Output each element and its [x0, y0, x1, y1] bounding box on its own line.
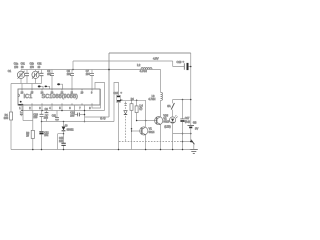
- label R1: [4, 113, 9, 120]
- label R2: [26, 132, 30, 138]
- capacitor C02 trimmer beside C1b: [40, 70, 44, 84]
- wire right leg of H2 down to y=66.5: [172, 61, 174, 67]
- svg-text:4.7uH: 4.7uH: [140, 69, 147, 73]
- capacitor C10 below pin3: [40, 111, 44, 122]
- svg-text:331: 331: [47, 73, 52, 76]
- wire bus y=110.5: [22, 110, 105, 112]
- capacitor C7 above pin9: [90, 70, 94, 90]
- svg-text:+: +: [120, 91, 122, 95]
- capacitor C19 series in antenna line: [184, 63, 187, 70]
- capacitor C4 jumper near pin 13: [45, 86, 50, 90]
- label node voltage (1.1): [100, 116, 105, 120]
- svg-text:30: 30: [38, 67, 41, 69]
- wire V1 collector column: [145, 100, 147, 127]
- switch SA: [171, 100, 174, 117]
- pin numbers top row: [21, 92, 93, 95]
- variable capacitor C1b: [32, 71, 39, 79]
- svg-text:103: 103: [70, 114, 75, 117]
- wire R1 to rail: [10, 120, 12, 150]
- pin ticks top edge: [22, 89, 92, 91]
- svg-text:9014: 9014: [149, 130, 155, 134]
- label C15: [59, 137, 64, 143]
- svg-text:102: 102: [59, 140, 64, 143]
- svg-text:L2: L2: [137, 63, 141, 67]
- wire y=117 to x=109: [85, 116, 110, 118]
- svg-text:SC1088(9088): SC1088(9088): [42, 94, 79, 100]
- wire staple to C16: [114, 83, 119, 122]
- wire pin1 column x=23: [22, 105, 24, 121]
- wire C1b bottom lead: [35, 78, 37, 83]
- capacitor C15: [61, 134, 65, 150]
- svg-text:9013: 9013: [163, 120, 169, 124]
- dashed mechanical link vertical: [125, 102, 127, 142]
- svg-text:3V: 3V: [195, 127, 198, 131]
- wire column x=32.8: [32, 111, 34, 131]
- wire branch y=133.7: [58, 134, 64, 150]
- node junction x=109 on rail: [72, 69, 110, 71]
- label L3: [148, 94, 155, 101]
- wire R4 down to V1 base: [131, 110, 133, 149]
- wire y=121.5 long: [42, 121, 115, 123]
- svg-text:30: 30: [21, 67, 24, 69]
- svg-text:104: 104: [86, 73, 91, 76]
- capacitor ticks on dashed link top: [124, 104, 126, 106]
- svg-text:(7): (7): [139, 108, 142, 111]
- ground symbol: [190, 149, 198, 153]
- earphone jack XS: [191, 140, 195, 150]
- capacitor C6 jumper over pin 12: [57, 83, 62, 89]
- svg-text:1: 1: [19, 107, 21, 110]
- wire V1 emitter to rail: [145, 135, 147, 150]
- label VD2: [65, 125, 74, 132]
- svg-text:C19: C19: [177, 60, 182, 64]
- wire H1 y=53: [109, 52, 191, 54]
- svg-text:270: 270: [30, 67, 35, 69]
- label R4: [131, 98, 135, 101]
- node dots pin7 column: [84, 114, 86, 123]
- svg-text:223: 223: [33, 116, 38, 119]
- svg-text:C1a: C1a: [14, 64, 19, 66]
- capacitor C5 above pin11: [70, 70, 74, 90]
- wire V2 emitter to rail: [160, 125, 162, 150]
- label SA: [167, 104, 171, 108]
- svg-text:8: 8: [89, 107, 91, 110]
- svg-text:4.5V: 4.5V: [153, 56, 159, 60]
- inductor L3 vertical: [161, 92, 163, 100]
- svg-text:7: 7: [79, 107, 81, 110]
- LED VD5: [170, 115, 178, 123]
- svg-text:VD5: VD5: [163, 115, 168, 118]
- electrolytic capacitor C16: [117, 95, 123, 149]
- pin ticks bottom edge: [22, 103, 92, 105]
- node dots right column: [182, 66, 192, 143]
- label C10: [33, 113, 38, 119]
- svg-text:(+): (+): [65, 125, 68, 127]
- node dot V1 base: [131, 128, 133, 132]
- electrolytic capacitor C12: [39, 122, 43, 150]
- node dots on bus: [21, 110, 85, 112]
- wire bus y=100.3 to V1 collector column: [121, 99, 146, 101]
- label C17: [185, 117, 190, 123]
- resistor R5 column x=136.6: [136, 100, 138, 106]
- transistor V2 9013: [155, 117, 163, 125]
- resistor R4 column x=131.5: [131, 100, 133, 103]
- node dots base line: [136, 120, 147, 122]
- node dot branch: [63, 133, 65, 135]
- node dot inside pin1 area: [20, 101, 22, 103]
- pin1 corner mark on bottom edge: [18, 104, 23, 106]
- capacitor C2 above pin13: [50, 70, 54, 90]
- wire pin6 lead to C13: [75, 105, 78, 115]
- label C19: [177, 60, 185, 64]
- wire y=141.5 solid right: [183, 141, 191, 143]
- label V1: [149, 127, 155, 134]
- wire H4 y=66.5 to cap C19: [173, 66, 191, 68]
- wire V2 base line y=120.5: [137, 120, 157, 122]
- label VD5: [163, 115, 170, 129]
- pin 1 notch: [18, 94, 19, 97]
- label IC1 SC1088(9088): [24, 94, 79, 100]
- svg-text:(1.1): (1.1): [100, 116, 105, 120]
- label C7: [86, 70, 91, 76]
- label 4.5V on H1: [153, 56, 159, 60]
- svg-text:5: 5: [59, 107, 61, 110]
- node dot: [182, 99, 184, 101]
- wire pin7 column x=84.5: [84, 105, 86, 122]
- label C16: [113, 91, 122, 96]
- wire R5 down to V2 base line: [136, 113, 138, 121]
- label C12: [44, 131, 49, 137]
- IC U1 SC1088 box: [18, 89, 100, 105]
- variable capacitor C1a: [17, 71, 24, 79]
- label R5 voltage: [139, 104, 143, 110]
- wire left leg of H2 down to rail: [72, 61, 74, 70]
- svg-text:GB: GB: [193, 121, 197, 124]
- capacitor C3 jumper over pins 14-13: [38, 85, 43, 89]
- label C2: [47, 70, 52, 76]
- capacitor C11: [55, 111, 59, 122]
- inductor L2 on rail: [141, 68, 152, 70]
- node dots dashed crossings: [190, 141, 192, 143]
- wire H2 y=61: [73, 60, 173, 62]
- wire right top bus y=99.5: [173, 99, 191, 101]
- label L2: [137, 63, 147, 73]
- svg-text:C11: C11: [52, 114, 57, 117]
- wire C1a top lead: [20, 70, 22, 72]
- svg-text:8S012: 8S012: [67, 129, 75, 132]
- svg-text:4: 4: [49, 107, 51, 110]
- wire vertical x=109 from H1 to y=117: [108, 53, 110, 117]
- label GB 3V: [193, 121, 197, 124]
- svg-text:4.7uH: 4.7uH: [148, 97, 155, 101]
- capacitor C17 column: [180, 100, 184, 150]
- svg-text:104: 104: [44, 117, 49, 120]
- wire drop to pin16: [21, 84, 23, 90]
- wire pin8 wrap via y=108: [92, 89, 101, 108]
- wire pins bottom stubs to bus: [22, 105, 62, 111]
- svg-text:C1b: C1b: [30, 64, 35, 66]
- wire y=133.5: [173, 133, 191, 135]
- capacitor C13 horizontal: [78, 113, 85, 117]
- resistor R2: [31, 130, 34, 138]
- svg-text:330: 330: [4, 116, 9, 120]
- label C13: [70, 111, 75, 117]
- svg-text:C02: C02: [37, 64, 42, 66]
- svg-text:SA: SA: [167, 104, 171, 108]
- capacitor C9 below pin4: [45, 111, 49, 122]
- svg-text:20: 20: [26, 135, 29, 138]
- label C9: [44, 108, 49, 120]
- wire LED to rail: [172, 123, 174, 149]
- label C5: [67, 70, 72, 76]
- transistor V1 9014: [140, 127, 148, 135]
- label C11: [52, 114, 57, 117]
- wire drop to pin15: [31, 84, 33, 90]
- wire C1a bottom lead: [20, 78, 22, 83]
- svg-text:2: 2: [29, 107, 31, 110]
- battery GB 3V: [188, 53, 195, 142]
- svg-text:(0.u): (0.u): [185, 120, 190, 123]
- wire L3 to V2 collector: [160, 100, 162, 116]
- wire bottom rail: [11, 149, 191, 151]
- node dot C16 out: [120, 99, 122, 101]
- svg-text:C1: C1: [8, 69, 12, 73]
- svg-text:3: 3: [39, 107, 41, 110]
- wire bus y=83.5 under tuning gang: [11, 83, 42, 85]
- wire staple pin9 wrap: [95, 83, 105, 111]
- svg-text:+: +: [183, 61, 185, 64]
- wire rail corner down to L3: [160, 70, 162, 93]
- resistor R1 far left column: [10, 112, 13, 120]
- wire top rail y=69.5: [21, 69, 161, 71]
- labels above tuning gang: [8, 64, 42, 74]
- svg-text:6: 6: [69, 107, 71, 110]
- svg-text:C16: C16: [113, 91, 118, 95]
- wire V1 base lead: [132, 130, 142, 132]
- wire left column x=11 down from bus: [10, 84, 12, 113]
- node dots on y=100.3: [131, 100, 138, 102]
- node dots y=121.5: [41, 121, 65, 123]
- svg-text:C01: C01: [21, 64, 26, 66]
- svg-text:270: 270: [14, 67, 19, 69]
- wire C1b top lead: [35, 70, 37, 72]
- svg-text:IC1: IC1: [24, 94, 33, 100]
- dashed link horizontal: [119, 141, 183, 143]
- wire R2 to rail: [32, 138, 34, 149]
- label V2: [163, 116, 169, 123]
- capacitor C14 beside pin1 column: [20, 111, 23, 116]
- node dots bottom rail: [32, 149, 183, 151]
- wire loop y=120.5: [23, 120, 33, 122]
- pin numbers bottom row: [19, 107, 91, 110]
- capacitor C01 trimmer beside C1a: [25, 70, 29, 84]
- svg-text:103: 103: [67, 73, 72, 76]
- svg-text:10u: 10u: [44, 134, 49, 137]
- svg-text:(LED): (LED): [164, 126, 170, 129]
- diode VD2 column x=63.5: [62, 122, 66, 134]
- diode VD4 on dashed link: [124, 111, 127, 115]
